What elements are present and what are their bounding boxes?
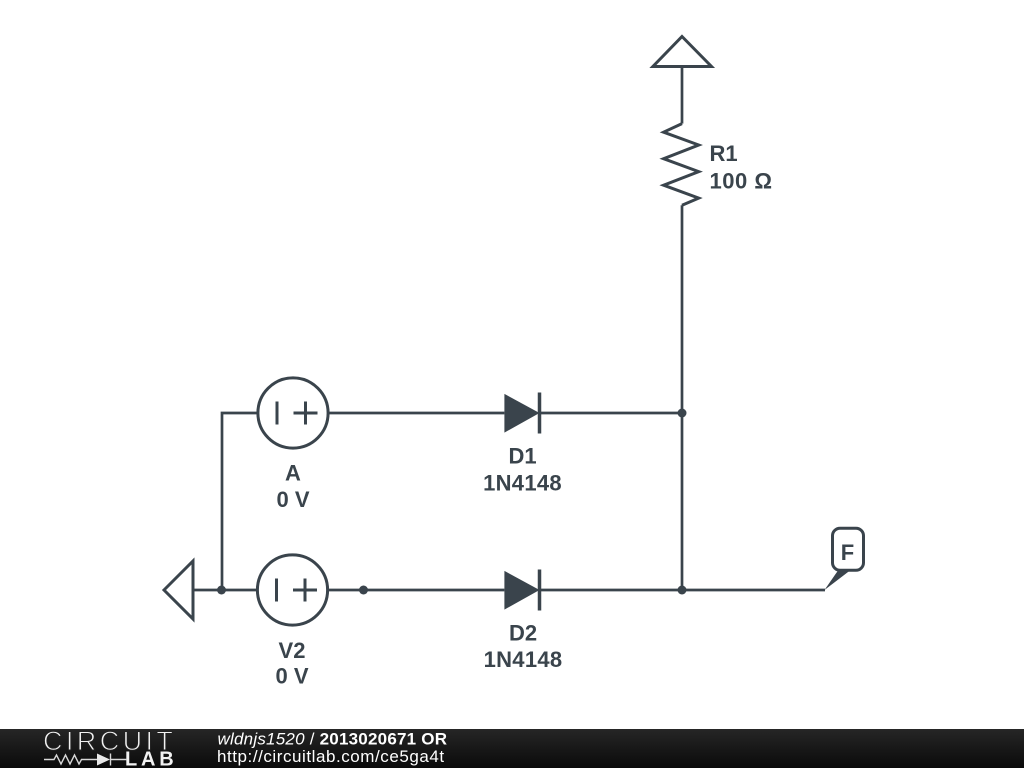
footer logo LAB xyxy=(125,749,178,768)
svg-text:100 Ω: 100 Ω xyxy=(710,169,773,194)
svg-text:1N4148: 1N4148 xyxy=(483,471,562,496)
svg-text:A: A xyxy=(285,461,301,486)
junction dot node D2 xyxy=(678,586,687,595)
svg-text:V2: V2 xyxy=(279,638,306,663)
label A xyxy=(285,461,301,486)
label R1 xyxy=(710,141,738,166)
label F xyxy=(841,540,854,565)
wire D2 cathode to flag F xyxy=(540,589,826,592)
value A 0V xyxy=(276,487,309,512)
svg-text:LAB: LAB xyxy=(125,749,178,768)
wire A to D1 anode xyxy=(328,412,504,415)
footer credits line 1 xyxy=(218,730,448,749)
wire node D1 down to node D2 xyxy=(681,413,684,590)
svg-text:0 V: 0 V xyxy=(276,487,309,512)
svg-text:http://circuitlab.com/ce5ga4t: http://circuitlab.com/ce5ga4t xyxy=(217,747,445,766)
footer credits line 2 xyxy=(217,747,445,766)
wire V2 to D2 anode xyxy=(328,589,504,592)
junction dot left of V2 xyxy=(217,586,226,595)
diode D2 xyxy=(504,570,539,611)
label D1 xyxy=(508,443,536,468)
svg-text:wldnjs1520 / 2013020671 OR: wldnjs1520 / 2013020671 OR xyxy=(218,730,448,749)
footer bar xyxy=(0,729,1024,768)
label V2 xyxy=(279,638,306,663)
voltage source A xyxy=(258,378,328,448)
power flag VCC xyxy=(653,37,712,67)
footer logo resistor-diode glyph xyxy=(44,754,127,766)
svg-text:0 V: 0 V xyxy=(275,664,308,689)
svg-text:D2: D2 xyxy=(509,621,537,646)
label D2 xyxy=(509,621,537,646)
wire D1 cathode to node xyxy=(540,412,683,415)
terminal dot right of V2 xyxy=(359,586,368,595)
value D1 1N4148 xyxy=(483,471,562,496)
value 100 Ohm xyxy=(710,169,773,194)
junction dot node D1 xyxy=(678,409,687,418)
node flag F xyxy=(825,528,864,590)
svg-text:D1: D1 xyxy=(508,443,536,468)
wire ground to source V2 xyxy=(193,589,258,592)
value D2 1N4148 xyxy=(484,647,563,672)
value V2 0V xyxy=(275,664,308,689)
svg-text:R1: R1 xyxy=(710,141,738,166)
svg-text:1N4148: 1N4148 xyxy=(484,647,563,672)
wire VCC to R1 top xyxy=(681,67,684,124)
diode D1 xyxy=(504,393,539,434)
voltage source V2 xyxy=(257,555,327,625)
ground flag xyxy=(164,561,193,619)
footer logo CIRCUIT xyxy=(43,726,176,756)
resistor R1 xyxy=(664,124,699,206)
wire left corner row1 to source A xyxy=(222,413,258,590)
svg-text:F: F xyxy=(841,540,854,565)
wire R1 bottom to node at D1 cathode xyxy=(681,205,684,413)
